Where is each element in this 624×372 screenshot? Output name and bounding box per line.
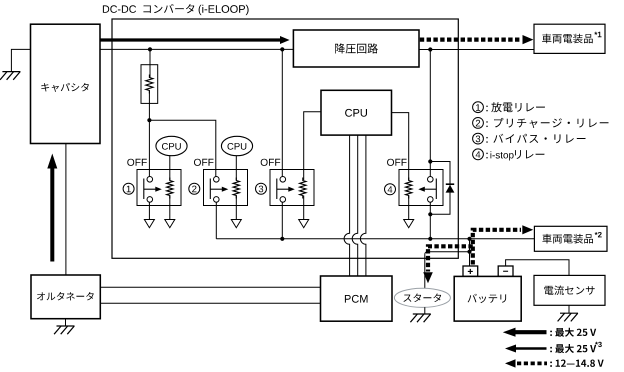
ground (alternator) <box>57 325 75 327</box>
wire: resistor leads <box>149 49 151 77</box>
thick arrow: capacitor to 降圧回路 <box>100 36 290 44</box>
node: relay3 on common <box>280 237 284 241</box>
node: resistor bottom junction <box>147 118 151 122</box>
CPU oval (relay2 driver) <box>221 136 252 155</box>
wire: relay1 switch to ground arrow <box>148 202 150 219</box>
node: starter/battery junction <box>467 250 471 254</box>
wire: buck output to 車両電装品*1 <box>419 49 534 51</box>
wire: relay2 switch to common line <box>215 202 217 239</box>
circled 4 <box>385 184 396 195</box>
label: DC-DC コンバータ (i-ELOOP) <box>103 5 136 13</box>
wire: starter feed <box>424 254 426 288</box>
ground (starter) <box>413 313 431 315</box>
wires: alternator to PCM (2 lines) <box>100 286 320 288</box>
dashed wire: battery to starter <box>428 246 473 271</box>
circled 3 <box>256 183 267 194</box>
wire: bus to relay3 switch <box>281 49 283 176</box>
wire: capacitor left ground stub <box>11 49 31 71</box>
wire: alternator ground <box>65 319 67 326</box>
box: 車両電装品*2 <box>534 226 607 251</box>
wire: capacitor to buck converter bus (thin) <box>100 48 293 50</box>
降圧回路 (buck converter) box <box>293 30 419 67</box>
wire: CPU to relay4 coil <box>392 113 409 180</box>
diode D1 <box>446 183 454 185</box>
wire: battery positive to common line <box>469 239 471 266</box>
wire: relay3 switch to common line <box>281 202 283 239</box>
wire: relay1 coil to ground arrow <box>169 196 171 220</box>
legend item 3 <box>473 133 484 144</box>
CPU oval (relay1 driver) <box>156 136 187 155</box>
label OFF (relay3) <box>261 159 281 166</box>
legend arrow: 最大 25 V*3 (medium) <box>505 345 547 353</box>
legend item 1 <box>473 102 484 113</box>
label OFF (relay4) <box>387 159 407 166</box>
wire: relay4 switch to common line <box>429 202 431 239</box>
wire: CPU to relay3 coil <box>304 112 321 180</box>
diode D1 loop wires <box>430 162 450 215</box>
ground (current sensor) <box>560 312 578 314</box>
circled 1 <box>123 183 134 194</box>
resistor R (discharge resistor) box <box>141 65 158 104</box>
circled 2 <box>189 183 200 194</box>
ground (capacitor) <box>2 71 20 73</box>
legend item 4 <box>473 149 484 160</box>
DC-DC converter outer box <box>112 19 458 258</box>
starter oval スタータ <box>394 288 450 307</box>
wires: CPU to PCM (3 lines with hops) <box>344 135 349 276</box>
node: relay4 branch junction <box>428 47 432 51</box>
CPU box <box>321 90 392 135</box>
box: 車両電装品*1 <box>534 24 605 53</box>
capacitor box <box>31 24 101 143</box>
wire: starter ground <box>424 307 426 314</box>
node: bypass relay branch junction <box>280 47 284 51</box>
wire: junction down to relay1 switch <box>148 120 150 176</box>
wire: CPU oval to relay1 coil <box>169 156 171 180</box>
wire: sensor ground <box>568 305 570 313</box>
relay 2 (precharge relay) <box>204 170 248 206</box>
wire: relay common line to 車両電装品*2 <box>216 238 534 240</box>
wire: battery negative to current sensor <box>506 260 569 276</box>
wire: capacitor to alternator <box>65 144 67 276</box>
relay 4 (i-stop relay) <box>399 170 443 206</box>
wire: relay4 coil to ground arrow <box>408 196 410 220</box>
wire: junction to relay2 switch <box>149 120 215 176</box>
wire: relay2 coil to ground arrow <box>235 196 237 220</box>
node: resistor top junction <box>148 47 152 51</box>
thick arrow: alternator to capacitor <box>47 154 57 262</box>
legend arrow: 12-14.8 V (dashed) <box>505 359 516 367</box>
legend arrow: 最大 25 V (thick) <box>503 328 547 337</box>
legend item 2 <box>473 118 484 129</box>
dashed wire: battery to vehicle loads *2 <box>473 230 521 265</box>
label OFF (relay2) <box>194 159 214 166</box>
label OFF (relay1) <box>127 159 147 166</box>
node: battery on common <box>467 237 471 241</box>
PCM box <box>321 276 393 321</box>
wire: down to relay4 switch <box>429 50 431 177</box>
wire: relay3 coil to ground arrow <box>303 196 305 220</box>
node: relay4 on common <box>428 237 432 241</box>
alternator box <box>31 275 100 319</box>
dashed arrow: 降圧回路 to 車両電装品*1 <box>420 37 521 41</box>
current sensor box 電流センサ <box>534 275 605 305</box>
relay 3 (bypass relay) <box>270 170 314 206</box>
battery box バッテリ <box>463 266 478 276</box>
wire: CPU oval to relay2 coil <box>235 156 237 180</box>
relay 1 (discharge relay) <box>137 170 181 206</box>
